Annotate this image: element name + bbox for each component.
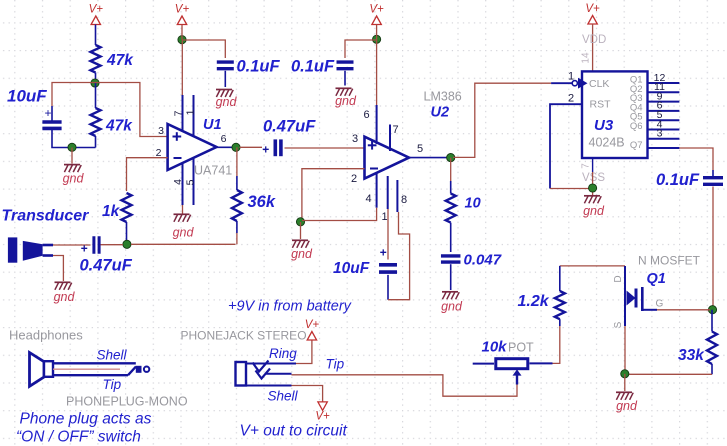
- wire 1.2k to pot: [553, 326, 560, 363]
- wire VSS to gnd: [592, 172, 594, 195]
- svg-text:S: S: [613, 321, 624, 328]
- ground (transducer): [55, 281, 71, 283]
- wire 1.2k to Q1 drain: [560, 265, 625, 267]
- svg-text:0.47uF: 0.47uF: [80, 257, 133, 275]
- svg-text:Tip: Tip: [326, 357, 345, 372]
- op-amp U1 triangle: [168, 124, 217, 170]
- svg-text:PHONEPLUG-MONO: PHONEPLUG-MONO: [66, 395, 188, 409]
- phonejack tip contact: [266, 373, 292, 375]
- svg-text:V+ out to circuit: V+ out to circuit: [240, 423, 348, 440]
- op-amp U2 minus sign: [370, 168, 378, 170]
- svg-text:RST: RST: [590, 99, 612, 111]
- phonejack body: [236, 362, 247, 386]
- node bias junction: [91, 79, 99, 87]
- svg-text:5: 5: [185, 179, 197, 185]
- svg-text:Q1: Q1: [647, 271, 666, 287]
- phonejack shell contact: [246, 385, 292, 387]
- svg-text:1: 1: [568, 71, 574, 83]
- wire junction down to U1 pin7: [181, 40, 183, 95]
- svg-text:gnd: gnd: [335, 94, 357, 108]
- resistor 10 (zobel): [450, 158, 452, 181]
- svg-text:V+: V+: [305, 319, 320, 331]
- svg-text:33k: 33k: [678, 347, 705, 364]
- svg-text:gnd: gnd: [441, 300, 463, 314]
- headphone plug tip: [128, 367, 136, 376]
- wire junction to gnd: [71, 148, 73, 164]
- svg-text:gnd: gnd: [291, 247, 313, 261]
- svg-text:4: 4: [172, 179, 184, 185]
- wire Q7 to 0.1uF cap: [679, 148, 713, 170]
- svg-text:4024B: 4024B: [589, 136, 625, 150]
- pot left lead: [473, 363, 494, 365]
- op-amp U2 triangle: [365, 137, 410, 179]
- svg-text:gnd: gnd: [616, 399, 638, 413]
- svg-text:D: D: [613, 275, 624, 282]
- svg-text:U1: U1: [203, 117, 222, 133]
- ground (bias rail): [64, 164, 80, 166]
- svg-text:47k: 47k: [106, 52, 134, 69]
- pin Q7 output line: [648, 147, 679, 149]
- svg-text:Tip: Tip: [103, 377, 122, 392]
- capacitor 0.47uF (interstage): [273, 139, 277, 156]
- svg-text:UA741: UA741: [194, 164, 232, 178]
- wire U2 pin2 to gnd junction: [302, 169, 365, 221]
- wire 47k bottom to node: [95, 73, 97, 84]
- pin 7 line (U2): [389, 125, 391, 152]
- op-amp U1 plus sign: [173, 136, 182, 138]
- ground (zobel): [442, 291, 458, 293]
- svg-text:PHONEJACK STEREO: PHONEJACK STEREO: [181, 329, 307, 343]
- pin 8 line (U2): [396, 180, 398, 212]
- resistor 1.2k: [559, 266, 561, 291]
- wire 0.1uF to gate junction: [712, 187, 714, 309]
- svg-text:7: 7: [581, 163, 592, 169]
- wire V+ to U3 pin14: [592, 24, 594, 71]
- wire shell to V+ out: [292, 386, 323, 402]
- pin 5 line (U1): [193, 158, 195, 205]
- wire 0.1uF cap1 to gnd: [224, 71, 226, 87]
- svg-text:CLK: CLK: [589, 78, 609, 90]
- wire 36k bottom to J1: [131, 243, 236, 245]
- svg-text:4: 4: [365, 193, 371, 205]
- svg-text:gnd: gnd: [173, 226, 195, 240]
- svg-text:Q6: Q6: [630, 121, 643, 132]
- potentiometer 10k body: [496, 359, 528, 369]
- svg-text:VDD: VDD: [582, 34, 606, 46]
- svg-text:2: 2: [568, 93, 574, 105]
- node U2 output junction: [447, 154, 455, 162]
- pin 6 line (U2): [376, 105, 378, 144]
- svg-text:1k: 1k: [102, 203, 121, 220]
- svg-text:U2: U2: [431, 105, 450, 121]
- wire junction to 0.1uF cap1: [182, 40, 225, 58]
- node Q1 source junction: [621, 370, 629, 378]
- wire 0.1uF cap2 to gnd: [344, 71, 346, 86]
- svg-text:5: 5: [417, 143, 423, 155]
- node input junction J1: [123, 240, 131, 248]
- svg-text:+: +: [44, 106, 51, 120]
- svg-text:+9V in from battery: +9V in from battery: [228, 299, 352, 315]
- pin 4 line (U1): [182, 162, 184, 205]
- svg-text:LM386: LM386: [424, 90, 462, 104]
- svg-text:8: 8: [401, 194, 407, 206]
- wire ring to V+: [296, 337, 312, 364]
- wire U1 output: [217, 146, 237, 148]
- pin 7 line (U1): [182, 95, 184, 132]
- capacitor 0.047 (zobel): [441, 254, 461, 257]
- svg-text:POT: POT: [508, 341, 534, 355]
- wire 0.47uF to U2 pin3: [285, 147, 365, 149]
- pot right lead: [530, 362, 553, 364]
- resistor 1k: [122, 193, 132, 222]
- node U2 gnd junction: [296, 218, 304, 226]
- svg-text:14: 14: [581, 52, 592, 64]
- svg-text:1.2k: 1.2k: [518, 293, 550, 310]
- clock wedge (U3 CLK): [572, 81, 577, 86]
- svg-text:Shell: Shell: [97, 348, 128, 363]
- transistor Q1 nmos: [624, 266, 626, 326]
- svg-text:N MOSFET: N MOSFET: [638, 254, 701, 268]
- wire gnd junction to pin4: [302, 208, 377, 221]
- wire 33k bottom to source: [628, 373, 712, 375]
- pin 7 line (U3 VSS): [592, 158, 594, 172]
- wire CLK from U2 output: [453, 83, 551, 157]
- svg-text:3: 3: [657, 128, 663, 140]
- svg-text:1: 1: [381, 211, 387, 223]
- resistor 36k: [236, 147, 238, 176]
- svg-text:10uF: 10uF: [333, 260, 370, 277]
- ground (Q1 source): [616, 391, 632, 393]
- wire U2 pin1 to 10uF: [387, 209, 389, 260]
- svg-text:2: 2: [351, 173, 357, 185]
- wire U2 output: [409, 157, 447, 159]
- pin 1 line (U2): [387, 176, 389, 209]
- svg-text:V+: V+: [175, 4, 190, 16]
- node U2 supply junction: [373, 35, 381, 43]
- svg-text:0.1uF: 0.1uF: [237, 58, 281, 76]
- capacitor 0.47uF (input): [92, 236, 95, 254]
- svg-text:Ring: Ring: [269, 346, 297, 361]
- wire Q1 source down: [624, 326, 626, 374]
- svg-text:V+: V+: [315, 410, 330, 422]
- svg-text:G: G: [656, 299, 664, 310]
- svg-text:7: 7: [392, 124, 398, 136]
- wire wiper to tip: [292, 375, 518, 396]
- pot wiper arrow: [513, 369, 522, 375]
- svg-text:10k: 10k: [482, 339, 508, 356]
- svg-text:gnd: gnd: [63, 172, 85, 186]
- svg-text:47k: 47k: [105, 118, 133, 135]
- node U1 supply junction: [178, 36, 186, 44]
- svg-text:0.1uF: 0.1uF: [291, 58, 335, 76]
- capacitor 0.1uF (gate): [712, 170, 714, 177]
- wire transducer to gnd: [53, 256, 63, 282]
- ic U3 4024B box: [582, 71, 648, 158]
- svg-text:3: 3: [158, 125, 164, 137]
- pins Q1-Q6 output stubs: [648, 82, 679, 84]
- wire junction to 0.1uF cap2: [345, 40, 377, 58]
- resistor 47k (upper bias): [91, 45, 101, 73]
- wire V+ to junction (U1): [181, 25, 183, 40]
- ground (U2 input): [292, 239, 308, 241]
- svg-text:“ON / OFF” switch: “ON / OFF” switch: [16, 429, 141, 446]
- wire U2 supply junction down to pin6: [376, 39, 378, 105]
- wire U1 pin4 to gnd: [182, 205, 184, 214]
- node gate junction: [708, 306, 716, 314]
- svg-text:36k: 36k: [248, 193, 276, 211]
- svg-text:6: 6: [221, 133, 227, 145]
- ground (U1 pin4): [174, 213, 190, 215]
- headphone plug shaft: [53, 362, 136, 364]
- wire U1 pin2 input: [127, 158, 168, 191]
- svg-text:6: 6: [363, 109, 369, 121]
- pin 1 line (U1): [193, 95, 195, 137]
- svg-text:+: +: [262, 143, 269, 157]
- wire V+ to R 47k top: [95, 25, 97, 46]
- wire 10uF bottom rail: [52, 130, 96, 148]
- svg-text:gnd: gnd: [583, 204, 605, 218]
- wire source junction to gnd: [624, 374, 626, 391]
- wire RST to VSS: [550, 104, 582, 188]
- wire 0.47uF to J1: [101, 244, 124, 246]
- wire bias node to U1 pin3: [95, 83, 167, 137]
- svg-text:Q7: Q7: [630, 140, 643, 151]
- capacitor 10uF (gain): [379, 263, 397, 267]
- svg-text:VSS: VSS: [582, 172, 605, 184]
- headphone plug cone: [30, 353, 45, 387]
- svg-text:V+: V+: [89, 4, 104, 16]
- capacitor 10uF (bias): [51, 106, 53, 121]
- op-amp U1 minus sign: [174, 157, 182, 159]
- svg-text:gnd: gnd: [54, 290, 76, 304]
- svg-text:0.047: 0.047: [464, 252, 502, 269]
- svg-text:V+: V+: [369, 4, 384, 16]
- svg-text:gnd: gnd: [216, 95, 238, 109]
- svg-text:10: 10: [465, 196, 481, 212]
- wire transducer to 0.47uF: [53, 244, 91, 246]
- svg-text:Shell: Shell: [268, 389, 299, 404]
- svg-text:1: 1: [185, 109, 197, 115]
- svg-text:Transducer: Transducer: [2, 208, 90, 225]
- wire U1 out to 0.47uF cap: [240, 146, 263, 148]
- capacitor 0.1uF (U1 bypass): [217, 60, 234, 63]
- resistor 47k (lower bias): [95, 83, 97, 108]
- resistor 33k: [711, 310, 713, 332]
- transducer symbol: [8, 237, 17, 262]
- svg-text:Headphones: Headphones: [9, 328, 83, 343]
- ground (0.1uF cap1): [216, 89, 232, 91]
- svg-text:+: +: [380, 246, 387, 260]
- svg-text:0.47uF: 0.47uF: [263, 118, 316, 136]
- svg-text:V+: V+: [585, 3, 600, 15]
- wire 10uF to pin8 loop: [387, 275, 389, 300]
- node U1 output junction: [232, 143, 240, 151]
- wire 0.047 to gnd: [450, 264, 452, 290]
- phonejack ring contact: [246, 363, 296, 365]
- wire V+ to junction (U2): [376, 25, 378, 40]
- ground (U3 VSS): [584, 195, 600, 197]
- svg-text:+: +: [81, 242, 88, 256]
- svg-text:Phone plug acts as: Phone plug acts as: [20, 411, 152, 428]
- capacitor 0.1uF (U2 bypass): [337, 60, 354, 63]
- op-amp U2 plus sign: [368, 144, 377, 146]
- node U3 VSS junction: [589, 184, 597, 192]
- svg-text:3: 3: [352, 133, 358, 145]
- wire Q1 gate lead: [642, 309, 657, 311]
- pin 4 line (U2): [376, 172, 378, 208]
- wire node to 10uF top: [52, 83, 95, 107]
- svg-text:0.1uF: 0.1uF: [656, 171, 700, 189]
- svg-text:7: 7: [173, 110, 185, 116]
- ground (0.1uF cap2): [336, 87, 352, 89]
- node gnd rail junction: [68, 143, 76, 151]
- wire gnd junction down: [300, 222, 302, 239]
- svg-text:U3: U3: [594, 117, 614, 134]
- svg-text:10uF: 10uF: [7, 87, 47, 106]
